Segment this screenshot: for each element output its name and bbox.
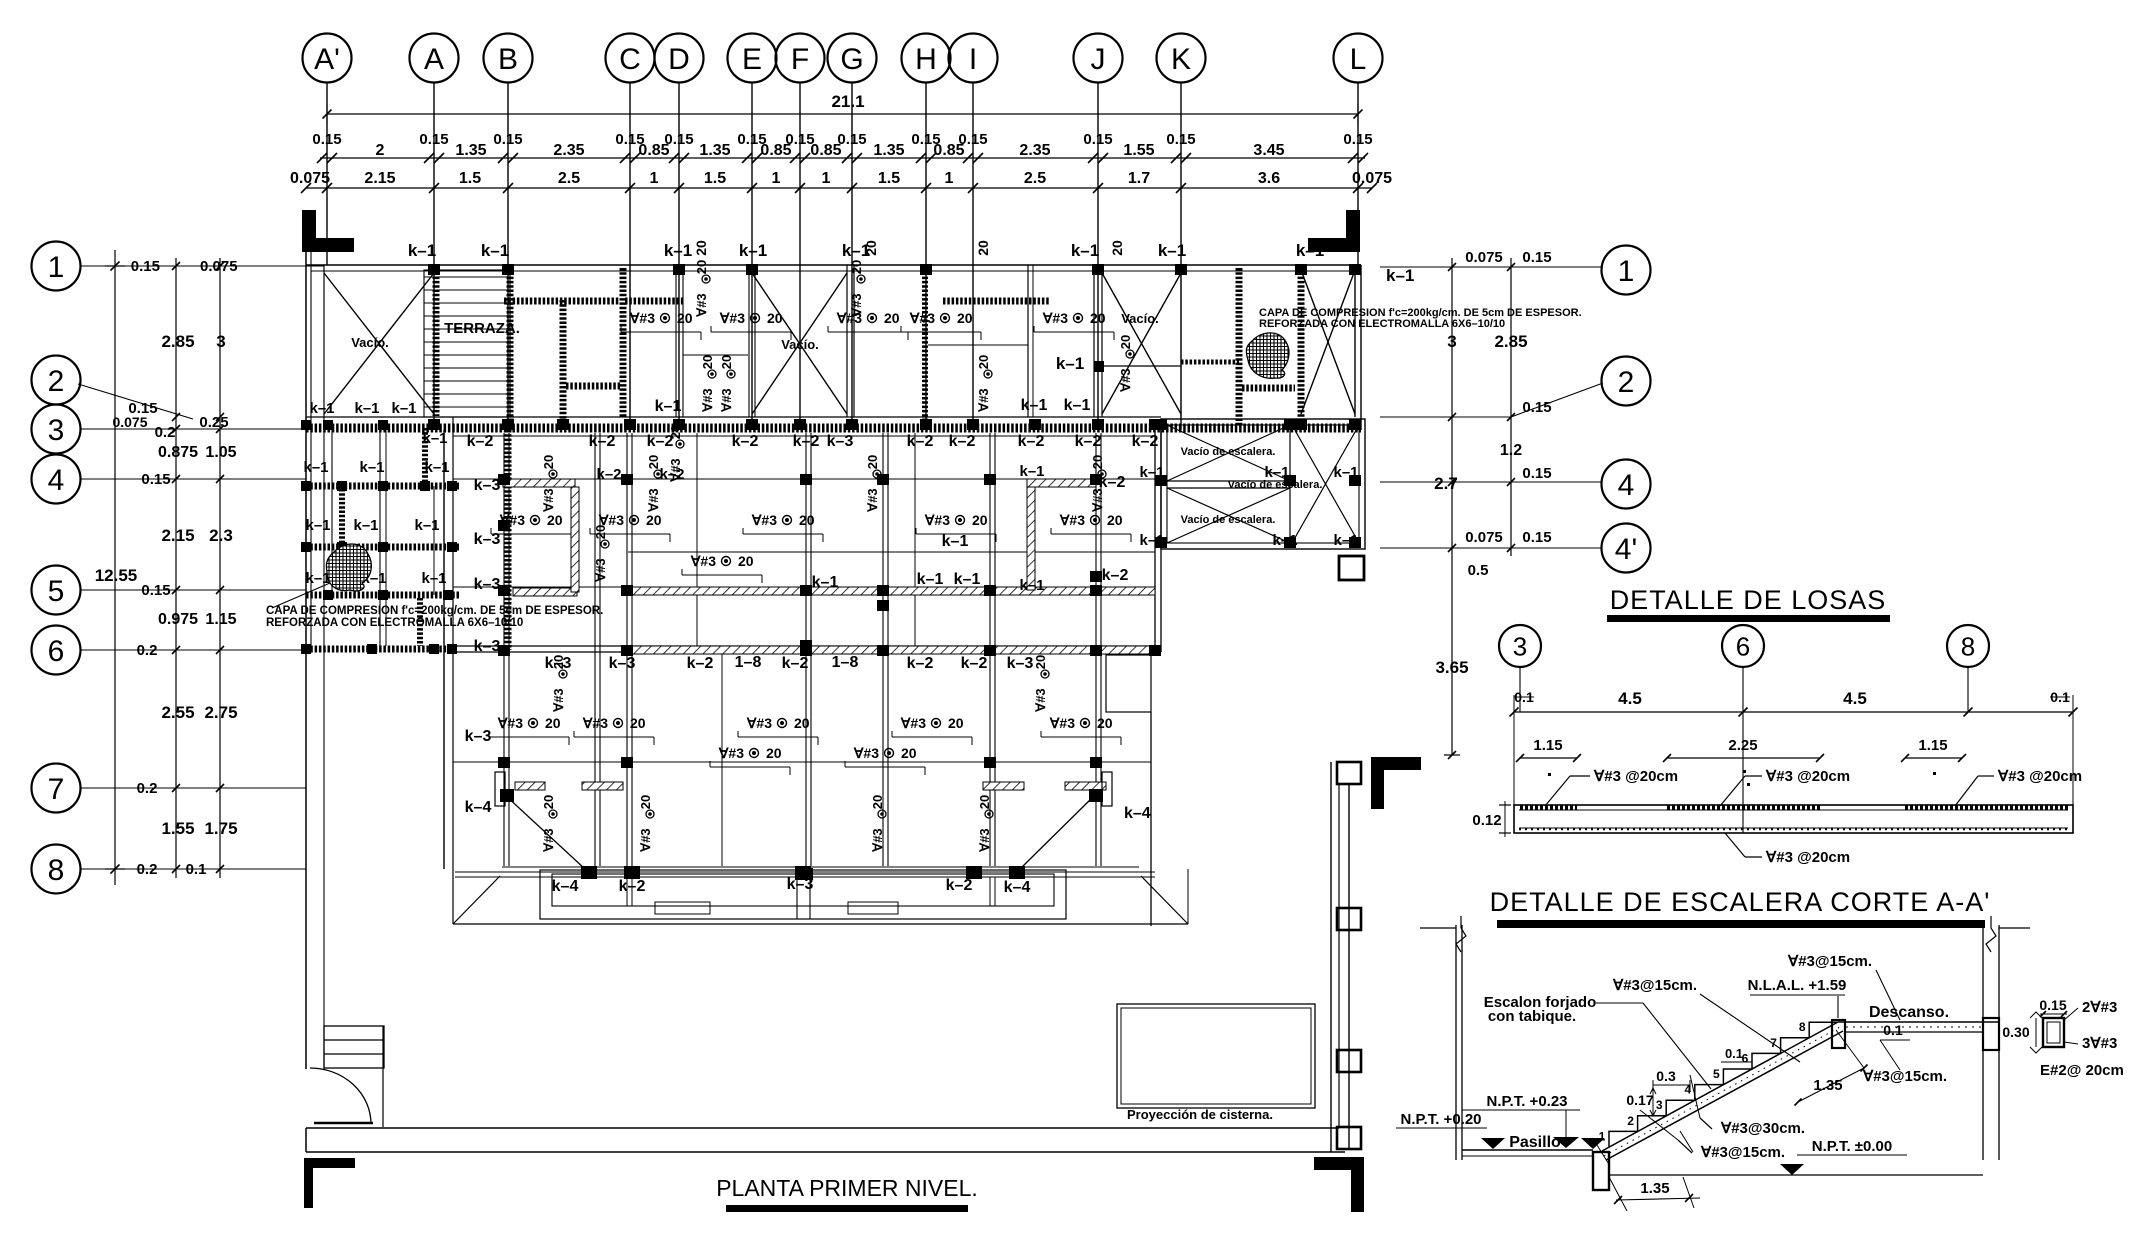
svg-text:0.2: 0.2	[137, 780, 158, 797]
svg-text:J: J	[1091, 43, 1106, 76]
descanso label	[1869, 1004, 1949, 1021]
svg-text:∀#3: ∀#3	[497, 715, 523, 731]
svg-text:k–1: k–1	[739, 241, 767, 260]
row bubble 7	[32, 764, 307, 813]
svg-text:k–1: k–1	[414, 517, 439, 534]
svg-text:1.55: 1.55	[161, 819, 194, 838]
escalera floors	[1462, 1110, 1983, 1175]
svg-text:20: 20	[630, 715, 646, 731]
stair void squares and labels	[1139, 419, 1361, 549]
svg-text:2: 2	[1627, 1114, 1634, 1128]
svg-text:Descanso.: Descanso.	[1869, 1004, 1949, 1021]
door swing arc	[310, 1026, 383, 1127]
row 7 hatched strips	[515, 782, 1106, 790]
svg-text:k–1: k–1	[408, 241, 436, 260]
svg-text:∀#3: ∀#3	[976, 388, 991, 412]
svg-text:∀#3@30cm.: ∀#3@30cm.	[1720, 1120, 1805, 1137]
stair base block	[1593, 1152, 1609, 1190]
svg-text:k–1: k–1	[1296, 241, 1324, 260]
corner bracket bottom-right	[1314, 1157, 1364, 1212]
grid bubble A'	[303, 34, 352, 266]
svg-text:20: 20	[541, 455, 556, 469]
svg-text:∀#3: ∀#3	[719, 388, 734, 412]
svg-text:1.5: 1.5	[459, 170, 481, 187]
svg-text:k–1: k–1	[1333, 464, 1358, 481]
svg-text:∀#3: ∀#3	[629, 310, 655, 326]
svg-text:1: 1	[48, 251, 65, 284]
losas bubble 3	[1499, 625, 1541, 712]
capa de compresion text top right	[1259, 307, 1582, 330]
svg-text:2.55: 2.55	[161, 703, 194, 722]
row bubble 2	[32, 356, 194, 420]
losas bubble 8	[1947, 625, 1989, 712]
svg-text:con tabique.: con tabique.	[1488, 1008, 1576, 1025]
svg-text:K: K	[1171, 43, 1191, 76]
svg-text:20: 20	[863, 240, 879, 256]
main body horizontal lines	[453, 436, 1155, 762]
main body bottom band row 8	[455, 866, 1155, 896]
svg-text:20: 20	[799, 512, 815, 528]
row bubble 4	[32, 455, 307, 504]
svg-text:2∀#3: 2∀#3	[2082, 999, 2117, 1016]
svg-text:∀#3: ∀#3	[700, 388, 715, 412]
svg-text:0.15: 0.15	[141, 471, 170, 488]
svg-text:k–1: k–1	[1071, 241, 1099, 260]
svg-text:∀#3: ∀#3	[1049, 715, 1075, 731]
right bubble 4	[1380, 460, 1651, 509]
losas detail title	[1607, 585, 1890, 622]
void X brace E-G	[752, 273, 847, 414]
svg-text:L: L	[1350, 43, 1367, 76]
svg-text:D: D	[668, 43, 690, 76]
svg-text:k–1: k–1	[1056, 354, 1084, 373]
main body frame	[504, 430, 1161, 926]
svg-text:20: 20	[1090, 310, 1106, 326]
grid bubble E	[728, 34, 777, 431]
svg-text:k–1: k–1	[391, 400, 416, 417]
svg-text:20: 20	[646, 512, 662, 528]
svg-text:REFORZADA CON ELECTROMALLA 6X6: REFORZADA CON ELECTROMALLA 6X6–10/10	[266, 617, 523, 629]
top block hatched wall segments horizontal	[504, 301, 1295, 388]
svg-text:E#2@ 20cm: E#2@ 20cm	[2040, 1062, 2124, 1079]
svg-text:A': A'	[314, 43, 340, 76]
grid bubble K	[1157, 34, 1206, 431]
corner bracket bottom-left	[304, 1158, 355, 1208]
grid bubble H	[902, 34, 951, 431]
annex column squares	[301, 420, 457, 654]
svg-text:0.15: 0.15	[1343, 131, 1372, 148]
svg-text:20: 20	[694, 260, 709, 274]
stair steps	[1599, 1020, 1838, 1147]
cisterna projection rectangle	[1117, 1004, 1315, 1122]
svg-text:k–1: k–1	[309, 400, 334, 417]
svg-text:k–2: k–2	[732, 433, 759, 450]
svg-text:k–1: k–1	[942, 533, 969, 550]
k-1 labels above row2	[655, 397, 1091, 415]
stair void block	[1161, 419, 1365, 549]
svg-text:G: G	[840, 43, 863, 76]
svg-text:0.875: 0.875	[158, 444, 198, 461]
concrete blob top right	[1246, 333, 1289, 378]
svg-text:∀#3: ∀#3	[593, 558, 608, 582]
escalera right wall	[1983, 916, 2030, 1160]
svg-text:k–1: k–1	[421, 570, 446, 587]
losas dimension line	[1510, 689, 2078, 805]
svg-text:20: 20	[1090, 455, 1105, 469]
slab thickness dim	[1472, 801, 1511, 837]
svg-text:∀#3: ∀#3	[924, 512, 950, 528]
top block outline	[306, 265, 1361, 430]
left dimension column lines	[95, 250, 224, 885]
k labels row 6	[545, 654, 1034, 672]
svg-text:1–8: 1–8	[832, 654, 859, 671]
svg-text:∀#3: ∀#3	[582, 715, 608, 731]
svg-text:20: 20	[547, 512, 563, 528]
svg-text:1.15: 1.15	[1533, 737, 1562, 754]
svg-text:0.15: 0.15	[1166, 131, 1195, 148]
entry stair bottom left	[324, 1026, 384, 1068]
right dimension columns	[1434, 249, 1551, 759]
svg-text:k–2: k–2	[1018, 433, 1045, 450]
svg-text:k–2: k–2	[907, 433, 934, 450]
svg-text:k–1: k–1	[303, 459, 328, 476]
svg-text:k–1: k–1	[422, 430, 447, 447]
k-2 labels row 3	[467, 433, 1159, 483]
svg-text:6: 6	[48, 635, 65, 668]
top block rebar labels	[621, 310, 1114, 340]
svg-text:20: 20	[849, 260, 864, 274]
svg-text:20: 20	[972, 512, 988, 528]
svg-text:20: 20	[541, 795, 556, 809]
svg-text:F: F	[791, 43, 809, 76]
svg-text:k–3: k–3	[474, 576, 501, 593]
escalera dims small	[1626, 1022, 1947, 1116]
svg-text:8: 8	[1961, 631, 1975, 661]
svg-text:3.6: 3.6	[1258, 170, 1280, 187]
svg-text:1–8: 1–8	[735, 654, 762, 671]
left annex walls	[306, 417, 460, 869]
column square below stair void	[1339, 556, 1364, 580]
svg-text:20: 20	[738, 553, 754, 569]
svg-text:k–4: k–4	[1124, 805, 1151, 822]
svg-text:k–2: k–2	[647, 433, 674, 450]
svg-text:k–2: k–2	[659, 466, 684, 483]
svg-text:Vacío.: Vacío.	[1121, 311, 1159, 326]
svg-text:∀#3: ∀#3	[719, 310, 745, 326]
svg-text:k–1: k–1	[424, 459, 449, 476]
svg-text:0.075: 0.075	[1352, 170, 1392, 187]
svg-text:2.5: 2.5	[558, 170, 580, 187]
site wall bottom	[306, 1128, 1345, 1152]
stair void X upper	[1167, 425, 1290, 481]
svg-text:0.12: 0.12	[1472, 812, 1501, 829]
svg-text:0.85: 0.85	[638, 142, 669, 159]
svg-text:k–2: k–2	[589, 433, 616, 450]
stair void X lower	[1167, 488, 1290, 543]
svg-text:k–2: k–2	[596, 466, 621, 483]
svg-text:TERRAZA.: TERRAZA.	[444, 320, 520, 337]
svg-text:1.05: 1.05	[205, 444, 236, 461]
slab rebar label bottom	[1725, 833, 1850, 866]
svg-text:k–1: k–1	[1139, 532, 1164, 549]
svg-text:20: 20	[975, 240, 991, 256]
svg-text:0.15: 0.15	[131, 258, 160, 275]
svg-text:∀#3: ∀#3	[751, 512, 777, 528]
svg-text:2.35: 2.35	[1019, 142, 1050, 159]
main body rebar labels row B	[489, 715, 1121, 745]
svg-text:1.5: 1.5	[878, 170, 900, 187]
svg-text:2.35: 2.35	[553, 142, 584, 159]
svg-text:k–2: k–2	[961, 655, 988, 672]
svg-text:2.15: 2.15	[161, 526, 194, 545]
svg-text:∀#3@15cm.: ∀#3@15cm.	[1612, 977, 1697, 994]
grid bubble B	[484, 34, 533, 431]
svg-text:k–1: k–1	[353, 517, 378, 534]
svg-text:0.15: 0.15	[493, 131, 522, 148]
svg-text:∀#3: ∀#3	[541, 488, 556, 512]
svg-text:0.075: 0.075	[1465, 249, 1503, 266]
losas secondary dims	[1516, 737, 1966, 762]
row2 column squares	[428, 419, 1361, 430]
svg-text:3: 3	[216, 332, 225, 351]
row bubble 5	[32, 566, 307, 615]
svg-text:0.15: 0.15	[419, 131, 448, 148]
svg-text:4: 4	[1618, 469, 1635, 502]
annex k-1 labels	[303, 400, 449, 587]
svg-text:k–1: k–1	[1264, 464, 1289, 481]
svg-text:k–3: k–3	[609, 655, 636, 672]
svg-text:∀#3: ∀#3	[977, 828, 992, 852]
svg-text:12.55: 12.55	[95, 566, 138, 585]
svg-text:20: 20	[545, 715, 561, 731]
svg-text:20: 20	[767, 310, 783, 326]
svg-text:2: 2	[48, 365, 65, 398]
svg-text:∀#3@15cm.: ∀#3@15cm.	[1862, 1068, 1947, 1085]
top wall column squares k-1	[408, 241, 1415, 285]
svg-text:k–2: k–2	[1102, 567, 1129, 584]
svg-text:1.35: 1.35	[1640, 1180, 1669, 1197]
svg-text:∀#3: ∀#3	[1118, 368, 1133, 392]
svg-text:∀#3: ∀#3	[638, 828, 653, 852]
svg-text:∀#3: ∀#3	[746, 715, 772, 731]
svg-text:k–2: k–2	[793, 433, 820, 450]
row 6 band	[455, 646, 1155, 652]
svg-text:k–4: k–4	[1004, 879, 1031, 896]
svg-text:0.075: 0.075	[112, 414, 147, 430]
svg-text:∀#3: ∀#3	[718, 745, 744, 761]
grid bubble J	[1074, 34, 1123, 431]
svg-text:k–1: k–1	[812, 574, 839, 591]
svg-text:k–1: k–1	[917, 571, 944, 588]
k-1 label mid J	[1056, 354, 1181, 373]
right bubble 2	[1380, 357, 1651, 418]
svg-text:0.075: 0.075	[200, 258, 238, 275]
svg-text:3∀#3: 3∀#3	[2082, 1035, 2117, 1052]
svg-text:Proyección de cisterna.: Proyección de cisterna.	[1127, 1107, 1273, 1122]
escalera left wall	[1420, 916, 1466, 1160]
corner bracket patio right	[1371, 757, 1421, 809]
svg-text:0.15: 0.15	[141, 582, 170, 599]
svg-text:k–1: k–1	[1386, 266, 1414, 285]
k-4 corner diagonals	[465, 772, 1151, 869]
svg-text:k–1: k–1	[655, 398, 682, 415]
row 2-3 wall band	[306, 424, 1361, 433]
svg-text:PLANTA PRIMER NIVEL.: PLANTA PRIMER NIVEL.	[716, 1175, 978, 1201]
svg-text:0.15: 0.15	[1083, 131, 1112, 148]
svg-text:8: 8	[1799, 1020, 1806, 1034]
top block rotated rebar labels	[693, 240, 1134, 413]
svg-text:∀#3: ∀#3	[853, 745, 879, 761]
grid bubble F	[776, 34, 825, 431]
svg-text:k–3: k–3	[474, 638, 501, 655]
svg-text:21.1: 21.1	[831, 92, 864, 111]
svg-text:Vacío de escalera.: Vacío de escalera.	[1181, 514, 1276, 526]
stair inclined slab	[1597, 1022, 1843, 1166]
svg-text:k–1: k–1	[305, 517, 330, 534]
svg-text:N.P.T. +0.20: N.P.T. +0.20	[1400, 1111, 1481, 1128]
svg-text:20: 20	[957, 310, 973, 326]
dimension chain row 2	[290, 170, 1392, 193]
main body rebar labels row A	[491, 512, 1131, 542]
svg-text:k–2: k–2	[1075, 433, 1102, 450]
svg-text:∀#3 @20cm: ∀#3 @20cm	[1593, 768, 1678, 785]
svg-text:2: 2	[1618, 366, 1635, 399]
svg-text:∀#3 @20cm: ∀#3 @20cm	[1765, 768, 1850, 785]
svg-text:∀#3: ∀#3	[900, 715, 926, 731]
svg-text:20: 20	[766, 745, 782, 761]
svg-text:k–1: k–1	[359, 459, 384, 476]
svg-text:4.5: 4.5	[1843, 689, 1867, 708]
svg-text:20: 20	[1109, 240, 1125, 256]
svg-text:0.15: 0.15	[1522, 249, 1551, 266]
svg-text:3.65: 3.65	[1435, 658, 1468, 677]
svg-text:k–1: k–1	[1019, 463, 1044, 480]
svg-text:k–1: k–1	[1064, 397, 1091, 414]
svg-text:5: 5	[1713, 1067, 1720, 1081]
svg-text:6: 6	[1736, 631, 1750, 661]
dimension chain row 1	[312, 131, 1372, 163]
grid bubble A	[410, 34, 459, 431]
svg-text:0.15: 0.15	[2039, 997, 2066, 1013]
svg-text:20: 20	[948, 715, 964, 731]
svg-text:k–1: k–1	[1272, 532, 1297, 549]
body column squares	[498, 474, 1161, 768]
void X brace A'-A	[324, 273, 434, 414]
svg-text:Vacío.: Vacío.	[351, 335, 389, 350]
svg-text:2: 2	[376, 142, 385, 159]
svg-text:∀#3: ∀#3	[849, 293, 864, 317]
svg-text:0.075: 0.075	[290, 170, 330, 187]
svg-text:2.75: 2.75	[204, 703, 237, 722]
svg-text:∀#3 @20cm: ∀#3 @20cm	[1765, 849, 1850, 866]
svg-text:∀#3: ∀#3	[646, 488, 661, 512]
svg-text:20: 20	[794, 715, 810, 731]
void X brace J-K	[1102, 273, 1181, 414]
svg-text:k–3: k–3	[1007, 655, 1034, 672]
svg-text:∀#3: ∀#3	[870, 828, 885, 852]
svg-text:8: 8	[48, 854, 65, 887]
svg-text:0.2: 0.2	[137, 861, 158, 878]
svg-text:3: 3	[1447, 332, 1456, 351]
svg-text:0.1: 0.1	[1883, 1022, 1903, 1038]
svg-text:∀#3 @20cm: ∀#3 @20cm	[1997, 768, 2082, 785]
svg-text:C: C	[619, 43, 641, 76]
right bubble 4'	[1380, 524, 1651, 573]
svg-text:DETALLE DE LOSAS: DETALLE DE LOSAS	[1610, 585, 1887, 615]
corner bracket top-right	[1308, 210, 1360, 252]
svg-text:20: 20	[700, 355, 715, 369]
svg-text:0.15: 0.15	[1522, 465, 1551, 482]
svg-text:2.7: 2.7	[1434, 474, 1458, 493]
svg-text:DETALLE DE ESCALERA CORTE A-A': DETALLE DE ESCALERA CORTE A-A'	[1490, 887, 1991, 917]
svg-text:k–3: k–3	[465, 728, 492, 745]
svg-text:k–1: k–1	[1333, 532, 1358, 549]
slab rebar label right	[1955, 768, 2082, 806]
top block grid walls	[324, 265, 1301, 425]
svg-text:1: 1	[772, 170, 781, 187]
svg-text:3: 3	[1656, 1098, 1663, 1112]
svg-text:3: 3	[48, 414, 65, 447]
title planta primer nivel	[716, 1175, 978, 1212]
svg-text:k–2: k–2	[687, 655, 714, 672]
svg-text:k–3: k–3	[474, 531, 501, 548]
svg-text:0.30: 0.30	[2002, 1024, 2029, 1040]
grid bubble C	[606, 34, 655, 431]
svg-text:20: 20	[1097, 715, 1113, 731]
svg-text:0.25: 0.25	[199, 414, 228, 431]
row bubble 6	[32, 626, 307, 675]
svg-text:20: 20	[719, 355, 734, 369]
svg-text:I: I	[969, 43, 977, 76]
svg-text:20: 20	[884, 310, 900, 326]
grid bubble L	[1334, 34, 1383, 266]
svg-text:REFORZADA CON ELECTROMALLA 6X6: REFORZADA CON ELECTROMALLA 6X6–10/10	[1259, 318, 1505, 330]
slab section	[1514, 805, 2073, 833]
escalera labels bottom	[1396, 1075, 1907, 1175]
escalon forjado label	[1484, 994, 1711, 1089]
svg-text:k–1: k–1	[954, 571, 981, 588]
svg-text:0.2: 0.2	[155, 424, 176, 441]
svg-text:1: 1	[650, 170, 659, 187]
svg-text:0.15: 0.15	[1522, 529, 1551, 546]
svg-text:Vacío de escalera.: Vacío de escalera.	[1181, 446, 1276, 458]
svg-text:1.35: 1.35	[873, 142, 904, 159]
svg-text:k–3: k–3	[545, 655, 572, 672]
svg-text:k–1: k–1	[1158, 241, 1186, 260]
stair bottom dim 1.35	[1609, 1177, 1700, 1211]
void X brace K-L	[1301, 270, 1355, 414]
svg-text:k–1: k–1	[1019, 577, 1044, 594]
svg-text:1.2: 1.2	[1500, 442, 1522, 459]
svg-text:20: 20	[1118, 335, 1133, 349]
beam section detail right	[2002, 997, 2123, 1079]
svg-text:N.P.T. ±0.00: N.P.T. ±0.00	[1812, 1138, 1893, 1155]
svg-text:0.1: 0.1	[186, 861, 207, 878]
svg-text:k–2: k–2	[949, 433, 976, 450]
svg-text:A: A	[424, 43, 444, 76]
svg-text:k–2: k–2	[782, 655, 809, 672]
main body rebar label mid	[682, 553, 762, 583]
terraza stair ladder	[424, 270, 520, 417]
svg-text:20: 20	[870, 795, 885, 809]
svg-text:∀#3: ∀#3	[1033, 688, 1048, 712]
svg-text:2.15: 2.15	[364, 170, 395, 187]
svg-text:∀#3: ∀#3	[865, 488, 880, 512]
svg-text:Pasillo: Pasillo	[1509, 1134, 1561, 1151]
svg-text:Vacío.: Vacío.	[781, 337, 819, 352]
svg-text:4.5: 4.5	[1618, 689, 1642, 708]
svg-text:∀#3: ∀#3	[541, 828, 556, 852]
